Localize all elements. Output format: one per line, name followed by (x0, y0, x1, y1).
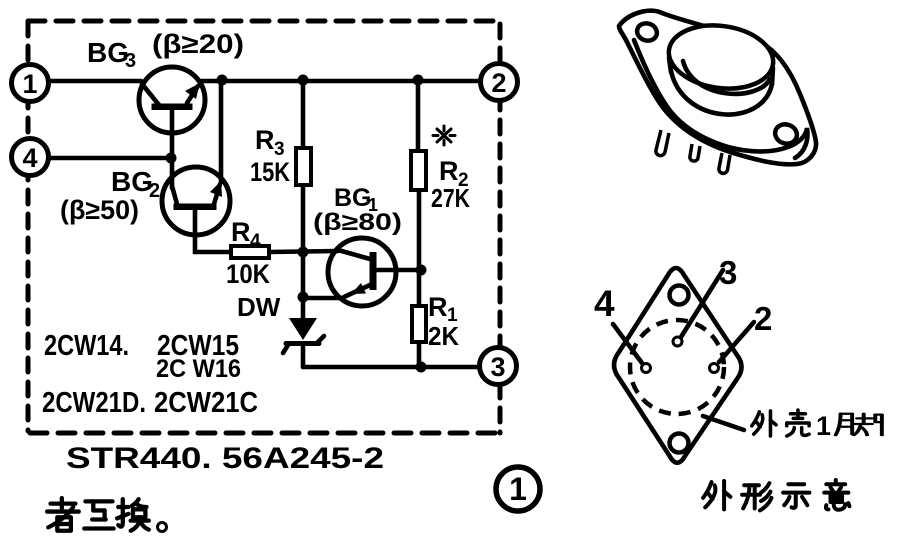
pinout pin 3 leader (681, 270, 723, 337)
TO-3 leg pin B (690, 144, 700, 161)
svg-text:10K: 10K (226, 259, 270, 289)
wire terminal4 to node (49, 156, 172, 161)
label asterisk mark (433, 126, 455, 145)
wire BG3 base down to BG2 collector (170, 110, 175, 188)
svg-text:4: 4 (594, 283, 615, 324)
zener diode DW (283, 318, 324, 353)
caption text huan (Chinese) (117, 499, 149, 531)
dashed border top (28, 19, 501, 24)
resistor R2 (411, 151, 426, 190)
TO-3 package flange outline (619, 11, 816, 165)
TO-3 cap left wall (669, 58, 671, 72)
pinout diamond outline (614, 268, 742, 463)
TO-3 leg pin A (656, 130, 669, 156)
pinout mounting hole top (670, 286, 689, 305)
wire terminal1 to BG3 (48, 79, 141, 84)
svg-text:(β≥20): (β≥20) (152, 29, 244, 59)
svg-text:4: 4 (250, 231, 261, 252)
wire node to BG1 emitter (303, 296, 343, 301)
pinout pin 2 leader (719, 322, 754, 362)
pinout dashed case circle (630, 320, 724, 414)
svg-text:R: R (255, 125, 275, 155)
svg-text:4: 4 (22, 143, 37, 173)
caption wai (Chinese) (703, 481, 730, 509)
TO-3 mounting hole bottom-right (773, 122, 800, 147)
svg-text:2: 2 (491, 68, 506, 98)
resistor R1 (412, 306, 426, 342)
pinout note jiao (Chinese) (836, 414, 882, 435)
TO-3 leg pin C (719, 153, 730, 173)
pinout pin 2 (710, 364, 719, 373)
terminal 1 (12, 65, 49, 102)
svg-text:2K: 2K (428, 321, 459, 351)
svg-text:2: 2 (149, 180, 160, 202)
wire top rail BG3 emitter to terminal 2 (199, 79, 481, 84)
svg-text:R: R (428, 292, 448, 322)
svg-text:BG: BG (334, 184, 372, 212)
svg-text:15K: 15K (250, 157, 290, 187)
wire rail down to BG2 emitter (219, 80, 224, 182)
wire R1 to bottom rail (417, 342, 422, 367)
wire BG2 base to R4 (195, 210, 231, 252)
wire R2 to R1 (417, 190, 422, 306)
TO-3 cap shoulder arc (683, 61, 770, 94)
resistor R4 (231, 246, 269, 258)
svg-text:BG: BG (87, 37, 129, 68)
TO-3 flange thickness line (634, 40, 808, 158)
TO-3 cap right wall (772, 68, 773, 84)
figure number circled 1 (496, 467, 540, 511)
svg-text:1: 1 (22, 69, 37, 99)
TO-3 mounting hole top-left (635, 21, 659, 43)
wire bottom rail to terminal 3 (303, 365, 480, 370)
junction node dots (217, 75, 228, 86)
wire R3 to zener DW (301, 185, 306, 320)
svg-text:BG: BG (111, 166, 153, 197)
terminal 3 (480, 348, 517, 385)
caption text zhe (Chinese) (47, 498, 79, 531)
dashed border right (498, 24, 503, 433)
caption full stop (158, 523, 167, 532)
svg-text:3: 3 (125, 50, 136, 72)
pinout pin 4 (642, 364, 651, 373)
wire BG1 base to divider node (377, 268, 421, 273)
svg-text:2CW21C: 2CW21C (154, 387, 258, 419)
caption text hu (Chinese) (84, 501, 113, 528)
wire rail to R3 (301, 80, 306, 148)
transistor BG3 (139, 67, 205, 133)
svg-text:R: R (231, 217, 251, 247)
svg-text:(β≥80): (β≥80) (313, 209, 402, 236)
terminal 2 (481, 64, 518, 101)
wire rail to R2 (416, 80, 421, 151)
TO-3 cap rim arc (671, 71, 772, 114)
svg-text:2: 2 (754, 300, 772, 337)
pinout case note leader (703, 416, 744, 430)
pinout note ke (Chinese) (787, 410, 809, 436)
svg-text:(β≥50): (β≥50) (60, 195, 139, 225)
transistor BG1 (328, 238, 396, 306)
svg-text:3: 3 (490, 352, 505, 382)
pinout pin 4 leader (613, 324, 642, 363)
svg-text:2CW14.: 2CW14. (44, 330, 129, 362)
svg-text:STR440. 56A245-2: STR440. 56A245-2 (66, 442, 384, 475)
svg-text:3: 3 (719, 254, 737, 291)
transistor BG2 (162, 167, 230, 235)
resistor R3 (296, 148, 311, 185)
svg-text:2CW21D.: 2CW21D. (42, 387, 146, 419)
caption yi (Chinese) (824, 480, 849, 510)
dashed border left (26, 22, 31, 431)
TO-3 cap top face (665, 19, 778, 95)
svg-text:DW: DW (237, 292, 281, 322)
svg-text:27K: 27K (431, 183, 470, 213)
svg-text:1: 1 (816, 411, 831, 441)
svg-text:1: 1 (509, 471, 527, 507)
caption xing (Chinese) (742, 483, 771, 510)
pinout mounting hole bottom (670, 434, 689, 453)
caption shi (Chinese) (783, 484, 809, 508)
svg-text:R: R (439, 156, 459, 186)
wire DW to bottom rail (301, 347, 306, 367)
svg-text:2C W16: 2C W16 (156, 355, 241, 383)
wire R4 to BG1 collector (269, 251, 338, 252)
pinout note wai (Chinese) (752, 411, 776, 436)
dashed border bottom (30, 431, 501, 436)
pinout pin 3 (673, 337, 682, 346)
terminal 4 (12, 139, 49, 176)
